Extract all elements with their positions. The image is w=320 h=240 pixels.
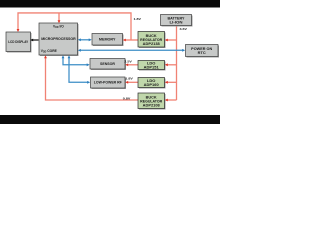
svg-text:ADP151: ADP151 <box>144 66 159 70</box>
svg-text:0.8V: 0.8V <box>123 97 132 101</box>
label 0.8V core supply <box>123 97 132 101</box>
arrow memory bus left end <box>78 38 81 41</box>
svg-text:ADP160: ADP160 <box>144 83 159 87</box>
wire microprocessor to sensor (blue) <box>63 57 89 65</box>
arrowhead black into LCD right <box>30 39 33 42</box>
arrow into LDO ADP151 right <box>165 63 168 66</box>
svg-text:MICROPROCESSOR: MICROPROCESSOR <box>41 37 76 41</box>
block LCD DISPLAY <box>6 32 32 53</box>
arrow RF line top end <box>68 55 71 58</box>
wire LDO ADP151 output to sensor <box>127 64 139 66</box>
arrow into sensor right <box>125 63 128 66</box>
wire buck ADP2138 output to memory <box>125 39 139 41</box>
wire battery to LDO ADP151 input <box>166 64 177 66</box>
arrow into LCD top <box>17 29 20 32</box>
block LDO ADP151 <box>138 61 166 71</box>
arrow RTC line left end <box>78 49 81 52</box>
arrow sensor line right end <box>87 63 90 66</box>
block MICROPROCESSOR <box>39 23 79 56</box>
arrow memory bus right end <box>89 38 92 41</box>
wire battery 3.6V bus vertical <box>176 26 178 101</box>
block LOW-POWER RF <box>91 77 127 89</box>
block BUCK REGULATOR ADP2138 <box>138 32 166 49</box>
wire battery to LDO ADP160 input <box>166 81 177 83</box>
wire microprocessor to power-on RTC (blue) <box>80 49 185 51</box>
arrow RF line right end <box>87 81 90 84</box>
wire microprocessor to low-power RF (blue) <box>69 57 89 82</box>
block SENSOR <box>90 59 126 71</box>
arrow into LDO ADP160 right <box>165 81 168 84</box>
wire microprocessor to memory bus (blue) <box>80 39 91 41</box>
label 2.5V sensor supply <box>124 60 133 64</box>
svg-text:ADP2138: ADP2138 <box>143 42 160 46</box>
svg-text:LCD DISPLAY: LCD DISPLAY <box>8 40 29 44</box>
wire buck ADP2108 0.8V output to VDD CORE <box>46 57 139 100</box>
arrow into low-power RF right <box>125 81 128 84</box>
arrowheads red power <box>17 20 168 101</box>
arrow into buck ADP2108 right <box>165 99 168 102</box>
wire LDO ADP160 output to low-power RF <box>127 81 139 83</box>
arrowheads blue signal <box>62 38 186 83</box>
svg-text:SENSOR: SENSOR <box>100 62 116 66</box>
arrow into microprocessor VDD CORE bottom <box>44 55 47 58</box>
svg-text:VDD I/O: VDD I/O <box>53 25 64 30</box>
block LDO ADP160 <box>138 78 166 89</box>
block BATTERY LI-ION <box>161 15 193 27</box>
svg-text:MEMORY: MEMORY <box>99 38 116 42</box>
label 3.6V battery <box>180 27 189 31</box>
svg-text:3.6V: 3.6V <box>180 27 189 31</box>
label 1.8V RF supply <box>125 76 134 80</box>
svg-text:1.8V: 1.8V <box>134 17 143 21</box>
block POWER ON RTC <box>186 45 220 58</box>
arrow RTC line right end <box>182 49 185 52</box>
block BUCK REGULATOR ADP2108 <box>138 93 166 110</box>
wire battery to buck ADP2108 input <box>166 99 177 101</box>
svg-text:LI-ION: LI-ION <box>170 20 184 24</box>
block MEMORY <box>92 34 124 47</box>
svg-text:ADP2108: ADP2108 <box>143 103 160 107</box>
arrow into memory right <box>123 39 126 42</box>
wire battery to buck ADP2138 input <box>166 39 177 41</box>
arrow sensor line top end <box>62 55 65 58</box>
wire microprocessor to LCD display (black) <box>32 39 39 41</box>
arrow into microprocessor VDD IO <box>58 20 61 23</box>
svg-text:LOW-POWER RF: LOW-POWER RF <box>94 81 122 85</box>
svg-text:2.5V: 2.5V <box>124 60 133 64</box>
label 1.8V top rail <box>134 17 143 21</box>
svg-text:RTC: RTC <box>198 51 207 55</box>
svg-text:1.8V: 1.8V <box>125 76 134 80</box>
wire 1.8V top power rail <box>18 13 131 40</box>
arrow into buck ADP2138 right <box>165 39 168 42</box>
